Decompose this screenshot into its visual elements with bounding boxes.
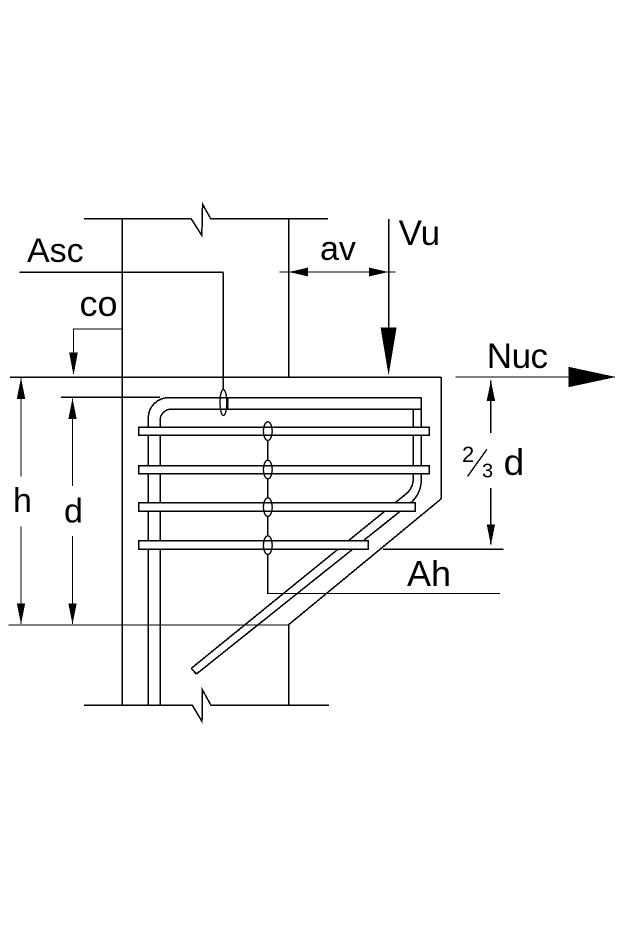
Asc label underline bbox=[20, 271, 224, 273]
weld ellipse stirrup 4 bbox=[263, 536, 272, 555]
svg-text:co: co bbox=[80, 283, 118, 324]
av dimension line bbox=[279, 271, 395, 273]
svg-text:Ah: Ah bbox=[407, 553, 451, 594]
Nuc arrow right bbox=[569, 367, 617, 387]
Vu arrow down bbox=[381, 328, 397, 376]
stirrup connector segment 3 bbox=[267, 516, 269, 535]
co arrow down bbox=[69, 353, 78, 376]
Nuc force line bbox=[456, 376, 615, 378]
svg-text:2: 2 bbox=[462, 442, 474, 467]
weld ellipse stirrup 1 bbox=[263, 422, 272, 441]
stirrup Ah 3 bbox=[139, 503, 416, 511]
2/3 d arrow up bbox=[487, 380, 495, 401]
column right edge lower bbox=[288, 625, 290, 706]
weld ellipse stirrup 2 bbox=[263, 460, 272, 479]
svg-text:Asc: Asc bbox=[27, 232, 84, 270]
2/3 d arrow down bbox=[487, 524, 495, 545]
d top extension line bbox=[61, 396, 160, 398]
svg-text:av: av bbox=[320, 230, 356, 268]
dimension h line bbox=[20, 378, 22, 624]
bottom extension line bbox=[9, 624, 289, 626]
svg-text:Vu: Vu bbox=[399, 214, 441, 253]
stirrup Ah 2 bbox=[139, 466, 430, 474]
main bar splice tick bbox=[227, 398, 229, 409]
svg-text:3: 3 bbox=[482, 461, 493, 483]
h arrow up bbox=[17, 378, 25, 399]
dimension d line bbox=[72, 399, 74, 625]
column left edge bbox=[121, 219, 123, 705]
main bar Asc inner line bbox=[160, 409, 421, 705]
d arrow up bbox=[68, 398, 76, 419]
Asc leader line bbox=[222, 272, 224, 389]
co bracket bbox=[74, 329, 123, 371]
svg-text:h: h bbox=[13, 482, 32, 520]
column right edge upper bbox=[288, 219, 290, 377]
2/3 d bottom extension line bbox=[383, 548, 503, 550]
svg-text:Nuc: Nuc bbox=[487, 337, 548, 376]
top cut line of column with break bbox=[84, 204, 328, 235]
fraction slash bbox=[468, 449, 487, 476]
av arrow left bbox=[289, 268, 308, 277]
d arrow down bbox=[68, 603, 76, 624]
weld ellipse stirrup 3 bbox=[263, 498, 272, 517]
main bar end cap bbox=[420, 398, 422, 409]
av arrow right bbox=[369, 268, 388, 277]
framing bar outer line bbox=[196, 409, 421, 674]
corbel right face bbox=[440, 377, 442, 499]
svg-text:d: d bbox=[504, 442, 525, 483]
Vu force line bbox=[388, 219, 390, 330]
stirrup connector segment 2 bbox=[267, 479, 269, 498]
corbel sloping face bbox=[289, 499, 442, 625]
corbel top face / h extension line bbox=[10, 376, 441, 378]
weld ellipse on Asc bar bbox=[220, 390, 227, 416]
svg-text:d: d bbox=[64, 492, 83, 530]
stirrup Ah 1 bbox=[139, 427, 430, 435]
stirrup Ah 4 bbox=[139, 541, 369, 549]
2/3 d dimension line bbox=[490, 381, 492, 545]
Ah leader line bbox=[268, 554, 500, 593]
stirrup connector segment 1 bbox=[267, 440, 269, 460]
main bar Asc outer line bbox=[148, 398, 421, 705]
h arrow down bbox=[17, 603, 25, 624]
framing bar inner line bbox=[191, 409, 413, 668]
bottom cut line of column with break bbox=[84, 689, 329, 721]
framing bar end cap bbox=[191, 668, 196, 674]
